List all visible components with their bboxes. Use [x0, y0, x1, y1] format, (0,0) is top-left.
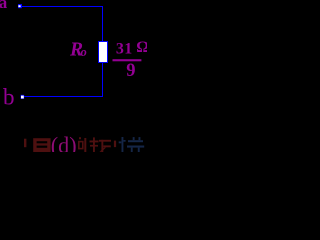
- value numerator 31 Ohm: [116, 39, 149, 57]
- svg-text:1: 1: [124, 41, 132, 58]
- value denominator 9: [126, 61, 135, 81]
- caption glyph tu (figure) block: [33, 138, 50, 152]
- svg-text:b: b: [3, 85, 15, 110]
- resistor Ro body: [98, 41, 108, 63]
- wire right vertical: [102, 6, 103, 97]
- node b terminal dot: [21, 95, 25, 99]
- label b: [3, 85, 15, 110]
- caption glyph blue narrow: [119, 137, 126, 152]
- caption glyph blue wide: [127, 137, 144, 152]
- caption glyph red wide (tuo): [90, 137, 117, 152]
- caption stroke fragment left tick: [24, 139, 26, 148]
- label a: [0, 0, 8, 12]
- caption glyph red narrow: [79, 137, 87, 152]
- svg-text:3: 3: [116, 41, 124, 58]
- svg-text:Ω: Ω: [136, 39, 147, 56]
- node a terminal dot: [18, 4, 22, 8]
- svg-text:o: o: [81, 45, 87, 59]
- svg-text:(d): (d): [51, 133, 77, 152]
- svg-text:9: 9: [126, 61, 135, 81]
- wire top (node a to top-right corner): [18, 6, 103, 7]
- caption label (d): [51, 133, 77, 158]
- wire bottom (node b to bottom-right corner): [21, 96, 103, 97]
- label Ro: [69, 40, 87, 61]
- svg-text:a: a: [0, 0, 8, 12]
- value fraction bar: [113, 59, 142, 61]
